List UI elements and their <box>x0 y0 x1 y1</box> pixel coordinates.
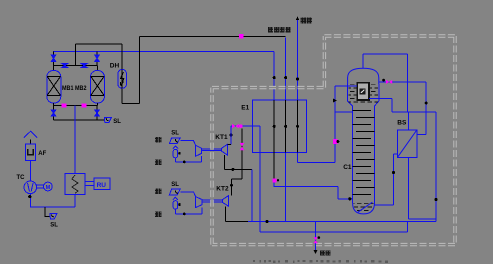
wire bed drain risers <box>54 105 98 119</box>
svg-text:M: M <box>46 185 51 191</box>
svg-text:SL: SL <box>50 223 58 229</box>
silencer SL (blower drain) <box>45 207 50 217</box>
valve magenta dome line <box>382 79 392 84</box>
node magenta marker riser <box>333 139 338 144</box>
wire E1 tubes (black) <box>274 100 297 178</box>
svg-text:KT2: KT2 <box>216 186 229 193</box>
label 再生空气 (regeneration air) <box>268 27 290 33</box>
valve V7 (blue) <box>51 110 55 116</box>
wire top tee to DH <box>76 36 286 103</box>
valve V5 (magenta) <box>62 104 67 108</box>
label 废液 <box>155 189 161 195</box>
wire center process line down <box>74 105 76 173</box>
wire tube1 to column feed <box>274 183 352 199</box>
wire KT1 outlet down <box>251 169 253 221</box>
node feed junction dot <box>348 197 351 200</box>
wire bed inlet stubs <box>54 66 98 71</box>
valve V1 (blue) <box>51 55 55 62</box>
svg-text:KT1: KT1 <box>215 134 228 141</box>
wire BS right jumper <box>417 112 426 135</box>
heat-exchanger HX <box>65 174 85 195</box>
svg-text:C1: C1 <box>343 164 352 171</box>
node magenta marker tube1 <box>273 178 277 182</box>
label 料气 <box>155 212 161 218</box>
heater DH <box>118 69 127 88</box>
svg-text:TC: TC <box>17 175 26 181</box>
wire bottom manifold of beds <box>54 103 98 105</box>
wire expander feed (black) <box>225 129 253 196</box>
wire KT1 inlet riser <box>230 126 232 144</box>
svg-text:AF: AF <box>38 151 46 157</box>
unit RU <box>94 178 110 190</box>
valve V3 (blue bowtie) <box>62 63 69 67</box>
column C1 packing hatch <box>348 85 378 104</box>
boundary dashed battery-limit box <box>212 36 455 245</box>
label 废液 <box>155 137 161 143</box>
motor M <box>44 182 53 191</box>
wire vent to flare <box>315 221 317 250</box>
wire C1 sump diagonal <box>358 202 373 212</box>
seal pot KT2 <box>173 197 178 200</box>
node vent arrow down <box>314 250 318 254</box>
label 放空 <box>320 250 331 255</box>
wire tube2 lower (blue) <box>285 152 287 221</box>
silencer SL (top) <box>104 117 111 122</box>
valve magenta on feed <box>240 143 245 150</box>
label 废气 <box>155 159 161 165</box>
wire drain header to SL <box>54 119 105 121</box>
exchanger E1 <box>253 100 307 152</box>
wire black stub right riser <box>96 52 98 66</box>
seal pot KT1 <box>173 146 178 149</box>
wire black stub left riser <box>53 52 55 66</box>
wire main bottom header <box>226 220 253 222</box>
column C1 trays <box>353 110 375 194</box>
valve V6 (magenta) <box>82 104 87 108</box>
label faint caption <box>253 260 388 263</box>
wire column top vent <box>363 54 407 112</box>
svg-text:RU: RU <box>97 182 107 189</box>
label 放气 (vent) <box>301 18 312 24</box>
wire tube3 to column loop <box>298 152 336 162</box>
wire E1 tube risers (blue tops) <box>274 37 286 100</box>
node dots <box>231 168 234 171</box>
vessel MB1 <box>47 71 61 104</box>
column C1 bottom head <box>353 203 375 214</box>
wire column left riser <box>335 86 353 163</box>
wire blower connections <box>29 160 31 207</box>
node flow arrow <box>333 99 337 103</box>
svg-text:E1: E1 <box>241 104 249 111</box>
wire KT2 drain header <box>176 208 202 214</box>
wire KT1 top branch <box>231 126 407 232</box>
wire C1 bottoms outlet <box>375 154 398 205</box>
wire instrument pipes <box>335 86 392 112</box>
column C1 shell <box>348 68 379 84</box>
wire main regeneration air header (blue) <box>53 51 274 53</box>
node magenta dot <box>239 124 243 128</box>
wire vent riser top <box>297 20 299 101</box>
blower B1 <box>24 181 37 194</box>
node magenta marker on regen line <box>239 34 244 39</box>
wire KT1 drain header <box>176 156 202 162</box>
svg-text:SL: SL <box>113 119 121 125</box>
node vent arrow tip <box>296 16 299 20</box>
valve magenta bowtie KT1 branch <box>232 124 239 129</box>
wire right manifold <box>392 112 436 222</box>
node tube junction dots <box>273 76 276 79</box>
svg-text:SL: SL <box>171 182 179 188</box>
instrument on C1 <box>357 83 369 100</box>
node junction dot <box>28 195 31 198</box>
svg-text:SL: SL <box>171 131 179 137</box>
valve magenta vent <box>313 236 320 243</box>
filter AF <box>24 131 37 137</box>
vessel MB2 <box>90 71 104 104</box>
svg-text:BS: BS <box>397 120 407 127</box>
wire HX bottom loop <box>30 194 75 207</box>
svg-text:DH: DH <box>110 62 120 69</box>
wire top manifold of beds <box>54 65 98 67</box>
wire lower return header <box>406 221 408 231</box>
svg-text:MB1 MB2: MB1 MB2 <box>62 85 87 92</box>
wire dome side line <box>379 82 426 112</box>
valve V8 (blue) <box>95 110 99 116</box>
valve V2 (blue) <box>95 55 99 62</box>
valve V4 (blue bowtie) <box>81 63 88 67</box>
